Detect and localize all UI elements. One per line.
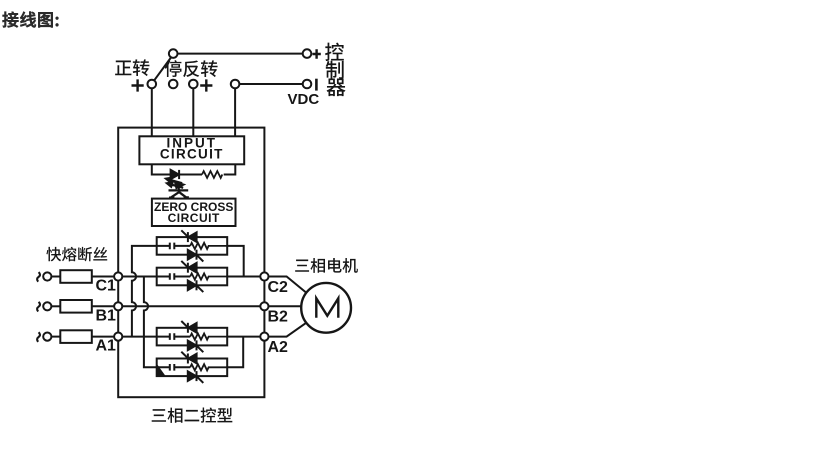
svg-text:A2: A2 <box>268 333 289 357</box>
svg-text:CIRCUIT: CIRCUIT <box>168 209 220 226</box>
svg-text:CIRCUIT: CIRCUIT <box>160 143 224 163</box>
svg-text:C2: C2 <box>268 273 289 297</box>
svg-text:三相电机: 三相电机 <box>294 253 358 277</box>
svg-text:三相二控型: 三相二控型 <box>151 403 234 427</box>
svg-text:B1: B1 <box>96 301 117 325</box>
svg-text:快熔断丝: 快熔断丝 <box>46 243 108 265</box>
svg-text:正转: 正转 <box>114 55 150 81</box>
svg-text:C1: C1 <box>96 272 117 296</box>
svg-text:器: 器 <box>326 71 346 100</box>
svg-text:A1: A1 <box>96 331 117 355</box>
svg-text:反转: 反转 <box>182 56 218 82</box>
svg-text:停: 停 <box>164 56 182 82</box>
svg-text:B2: B2 <box>268 303 289 327</box>
svg-text:VDC: VDC <box>288 91 320 108</box>
